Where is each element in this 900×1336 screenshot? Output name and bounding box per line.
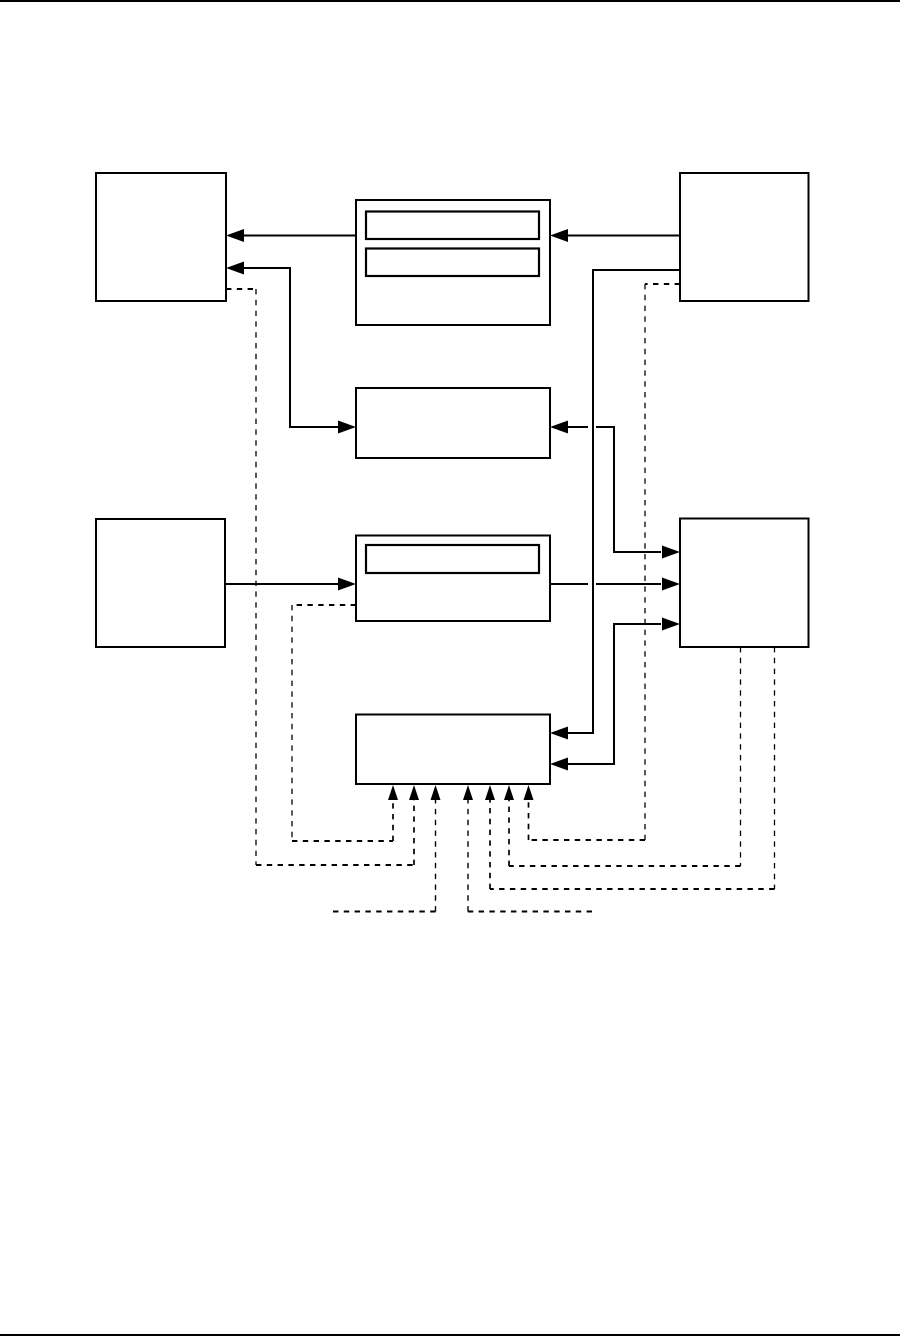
bottom page rule	[0, 1334, 900, 1336]
dashed wire D3: open left stub to B8 arrow 3	[333, 785, 441, 912]
dashed wire D2: B6 left edge down to B8 arrow 1	[292, 605, 398, 841]
B3 inner slot 1	[366, 212, 539, 240]
block B8 (bottom-center box)	[356, 715, 550, 785]
block B6 (center box with slot)	[356, 536, 550, 622]
dashed wire D1: B1 right edge down to B8 arrow 2	[226, 289, 419, 865]
double-headed solid wire B1/B4 via x290	[226, 262, 356, 434]
dashed wire D4: open right stub to B8 arrow 4	[463, 785, 592, 912]
solid arrow B3 to B1	[226, 229, 356, 242]
B3 inner slot 2	[366, 249, 539, 277]
solid wire B2 to B8 upper (via x593)	[550, 270, 680, 740]
dashed wire D6: B7 bottom (inner) to B8 arrow 6	[504, 647, 741, 866]
top page rule	[0, 0, 900, 2]
dashed wire D7: B2 left edge down to B8 arrow 7	[524, 284, 681, 840]
double-headed solid wire B7/B8 via x614	[550, 618, 680, 771]
block B4 (middle-center box)	[356, 388, 550, 458]
B6 inner slot	[366, 545, 539, 573]
dashed wire D5: B7 bottom (outer) to B8 arrow 5	[485, 647, 775, 889]
double-headed solid wire B4/B7 via x614 (hop gap at x593)	[550, 421, 680, 559]
solid arrow B2 to B3	[550, 229, 680, 242]
block B1 (top-left square)	[96, 173, 226, 301]
block B7 (right-middle square)	[680, 519, 809, 648]
block B5 (left-middle square)	[96, 519, 225, 647]
block B3 (top-center box)	[356, 200, 550, 325]
solid arrow B6 to B7 (hop gap at x593)	[550, 578, 680, 591]
solid arrow B5 to B6	[225, 578, 356, 591]
block B2 (top-right square)	[680, 173, 809, 301]
